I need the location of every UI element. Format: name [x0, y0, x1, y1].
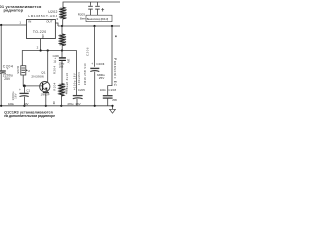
svg-text:C1: C1	[26, 89, 30, 93]
svg-text:10V: 10V	[24, 102, 29, 106]
wire r203 top	[61, 26, 63, 34]
diode D1	[47, 90, 49, 93]
connector label box	[86, 15, 112, 21]
svg-text:C204: C204	[3, 64, 14, 68]
resistor R203	[59, 34, 65, 46]
svg-text:IN: IN	[28, 20, 31, 24]
capacitor C204	[0, 70, 6, 72]
vertical labels middle	[65, 47, 90, 89]
node gnd-c204	[0, 105, 2, 107]
svg-text:25В: 25В	[112, 99, 117, 102]
wire collector	[47, 51, 49, 82]
node gnd-c207	[94, 105, 96, 107]
connector pin 1	[90, 2, 92, 6]
svg-text:1N60P: 1N60P	[41, 92, 50, 96]
regulator U202 labels	[28, 10, 57, 18]
ground	[112, 106, 114, 110]
svg-text:25V: 25V	[4, 77, 11, 81]
wire OUT pin	[55, 23, 58, 26]
svg-text:100х35V: 100х35V	[77, 72, 81, 85]
svg-text:Panasonic EC: Panasonic EC	[113, 58, 117, 87]
note Q1 C1 R3 heatsink annotation	[4, 110, 55, 118]
wire input y25	[0, 24, 27, 26]
wire output branch	[108, 26, 112, 95]
resistor R204	[59, 84, 65, 95]
svg-text:16V: 16V	[14, 93, 18, 99]
trimmer R205	[21, 66, 26, 75]
node input	[0, 24, 2, 26]
capacitor C205	[73, 95, 83, 97]
node adj	[40, 49, 42, 51]
capacitor C1	[23, 86, 25, 93]
svg-text:25V: 25V	[99, 76, 105, 80]
svg-text:16V: 16V	[66, 59, 70, 64]
svg-text:+: +	[91, 62, 93, 66]
wire rail out y26	[58, 25, 120, 27]
node gnd-q1	[45, 105, 47, 107]
node coil-rail	[61, 25, 63, 27]
svg-text:C208: C208	[108, 88, 116, 92]
svg-text:LM1085CT-ADJ: LM1085CT-ADJ	[28, 14, 57, 18]
wire pot bottom	[23, 75, 42, 86]
svg-text:Вентилятор [WF-3]: Вентилятор [WF-3]	[87, 17, 109, 21]
wire top rail y2	[63, 2, 120, 7]
svg-text:100u: 100u	[8, 102, 14, 106]
wire input vertical	[0, 25, 2, 71]
svg-text:100u 16V: 100u 16V	[73, 73, 77, 88]
svg-text:+: +	[19, 88, 21, 92]
wire adj rail y50.5	[22, 51, 76, 66]
wire C207 top	[94, 26, 96, 67]
svg-text:R204: R204	[53, 82, 57, 90]
capacitor C207	[91, 62, 105, 66]
node c207-rail	[93, 25, 95, 27]
node out-rail	[111, 25, 113, 27]
svg-text:100n: 100n	[100, 88, 106, 92]
svg-text:16В: 16В	[59, 65, 64, 68]
svg-text:R205: R205	[16, 66, 20, 74]
note U201 heatsink annotation	[0, 4, 42, 13]
connector pin 2	[97, 2, 99, 6]
svg-text:на дополнительном радиаторе: на дополнительном радиаторе	[4, 114, 55, 118]
svg-text:КМ16 25В Ч10: КМ16 25В Ч10	[83, 63, 87, 85]
svg-text:C205: C205	[78, 88, 85, 92]
svg-text:радиатор: радиатор	[4, 8, 24, 13]
capacitor C206	[61, 51, 63, 58]
node gnd-r204	[60, 105, 62, 107]
transistor Q1	[31, 71, 45, 79]
svg-text:R204: R204	[52, 66, 56, 75]
wire ADJ pin	[40, 39, 42, 51]
svg-text:470u: 470u	[67, 102, 74, 106]
svg-text:2N3906: 2N3906	[31, 74, 44, 78]
wire C205 branch	[76, 51, 78, 96]
wire bottom rail	[0, 105, 113, 107]
node collector	[47, 49, 49, 51]
svg-text:4зк8 4х10: 4зк8 4х10	[65, 73, 69, 89]
node base	[23, 85, 26, 88]
svg-text:OUT: OUT	[46, 19, 53, 23]
regulator U202 body	[27, 20, 56, 39]
svg-text:16V: 16V	[75, 102, 80, 106]
resistor R202	[60, 7, 66, 19]
node r203	[61, 49, 63, 51]
node gnd-out	[111, 105, 113, 107]
node gnd-c1	[23, 105, 25, 107]
connector plus mark	[101, 8, 104, 12]
svg-text:ADJ: ADJ	[41, 34, 44, 39]
svg-text:C206: C206	[53, 54, 60, 58]
svg-text:C206: C206	[85, 47, 89, 56]
capacitor C208	[100, 88, 117, 92]
